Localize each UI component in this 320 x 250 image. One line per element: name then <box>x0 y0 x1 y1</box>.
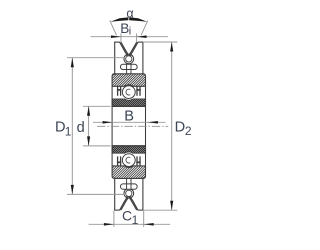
dimension D1: line, ext lines, arrows <box>71 58 73 195</box>
svg-text:2: 2 <box>185 124 192 138</box>
neck seam lines (upper) <box>126 63 128 74</box>
bearing seal (left upper) <box>117 86 119 96</box>
svg-text:C: C <box>122 208 132 224</box>
svg-text:B: B <box>124 108 134 124</box>
bore lines <box>112 105 145 107</box>
clamping bead capsule (lower) <box>120 184 137 189</box>
clamping bead capsule (upper) <box>120 64 137 69</box>
svg-text:i: i <box>129 25 131 37</box>
sheave rim wall (left upper) <box>114 42 116 75</box>
dimension B: line and arrows <box>93 121 166 123</box>
dimension alpha: angle arrows <box>110 17 128 21</box>
dimension D2: line, ext lines, arrows <box>171 42 173 210</box>
groove-bottom rolled bead circle (upper) <box>124 54 134 64</box>
groove-bottom bead fill (lower) <box>123 188 134 199</box>
ball lower with cage mark <box>122 154 135 167</box>
sheave rim wall (left lower) <box>114 177 116 210</box>
groove-bottom rolled bead circle (lower) <box>124 188 134 198</box>
svg-text:α: α <box>126 6 133 20</box>
groove-bottom bead fill (upper) <box>123 54 134 65</box>
bearing seal (left lower) <box>117 156 119 166</box>
dimension B1: line, ticks, arrows <box>91 36 169 38</box>
neck seam lines (lower) <box>126 178 128 189</box>
bearing seal (right lower) <box>139 156 141 166</box>
dimension alpha: flank extension lines <box>110 20 117 35</box>
svg-text:1: 1 <box>132 213 139 227</box>
svg-text:d: d <box>77 120 85 136</box>
dimension C1: line, ticks, arrows <box>89 223 171 225</box>
svg-text:D: D <box>175 120 186 136</box>
sheave rim wall (right upper) <box>142 42 144 75</box>
dimension d: line, ext lines, arrows <box>88 106 90 146</box>
sheave rim wall (right lower) <box>142 177 144 210</box>
center axis <box>97 125 168 127</box>
bearing seal (right upper) <box>139 86 141 96</box>
ring face lines <box>111 86 113 166</box>
ball upper with cage mark <box>122 86 135 99</box>
svg-text:1: 1 <box>65 124 72 138</box>
